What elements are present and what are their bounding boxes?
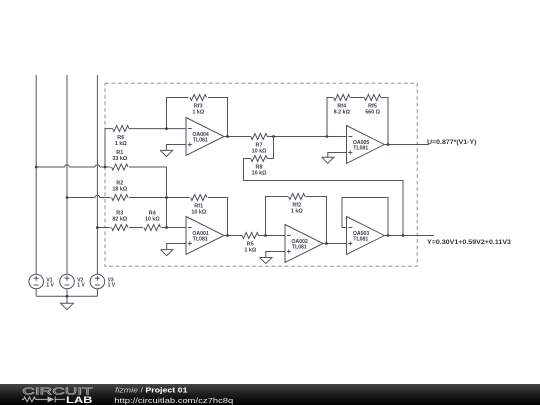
wire: V2 to R2 (hop over V3 bus) bbox=[67, 197, 111, 199]
wire hop over V3 bus on R2 line bbox=[95, 195, 100, 197]
svg-text:U=0.877*(V1-Y): U=0.877*(V1-Y) bbox=[427, 139, 477, 146]
wire: OA001 output to R5 bbox=[224, 235, 242, 237]
svg-text:1 kΩ: 1 kΩ bbox=[115, 141, 127, 147]
wire: OA003 unity feedback loop bbox=[342, 198, 388, 236]
svg-text:10 kΩ: 10 kΩ bbox=[252, 149, 267, 155]
dashed subcircuit boundary box bbox=[105, 83, 417, 266]
voltage source V3 1 V bbox=[90, 274, 105, 289]
wire: between Rf4 and Rf5 bbox=[351, 97, 365, 99]
svg-text:TL081: TL081 bbox=[353, 237, 368, 243]
wire: V1 bottom lead bbox=[35, 289, 37, 297]
svg-text:1 V: 1 V bbox=[77, 283, 85, 289]
svg-text:82 kΩ: 82 kΩ bbox=[112, 216, 127, 222]
ground: OA002 non-inverting input bbox=[260, 252, 285, 264]
svg-text:10 kΩ: 10 kΩ bbox=[145, 216, 160, 222]
wire: OA002 output to OA003 non-inverting input bbox=[323, 243, 347, 245]
op-amp OA003 TL081 bbox=[347, 217, 385, 255]
op-amp OA004 TL081 bbox=[186, 118, 224, 156]
resistor R7 10 kΩ bbox=[251, 134, 268, 140]
wire: R3 to R4 bbox=[129, 227, 143, 229]
wire: OA004 output to R7 bbox=[224, 136, 251, 138]
wire: V2 bottom lead bbox=[66, 289, 68, 297]
resistor Rf3 1 kΩ bbox=[190, 95, 207, 101]
wire: Rf1 right lead down to OA001 output bbox=[208, 198, 228, 236]
wire: OA005 feedback left vertical + lead to Rf4 bbox=[327, 98, 333, 137]
svg-text:fizmie / Project 01: fizmie / Project 01 bbox=[115, 386, 188, 395]
op-amp OA002 TL081 bbox=[285, 225, 323, 263]
ground: OA001 non-inverting input bbox=[161, 244, 187, 256]
ground: OA005 non-inverting input bbox=[322, 153, 347, 164]
svg-text:LAB: LAB bbox=[66, 394, 93, 405]
logo resistor-diode glyph bbox=[22, 396, 65, 402]
wire: OA003 output to Y terminal bbox=[385, 235, 435, 237]
wire: Rf5 right lead down to OA005 output bbox=[381, 98, 388, 145]
svg-text:1 kΩ: 1 kΩ bbox=[244, 248, 256, 254]
resistor R6 1 kΩ bbox=[113, 126, 130, 132]
wire: OA005 output to U terminal bbox=[385, 144, 430, 146]
wire: source common rail bbox=[36, 295, 97, 297]
svg-text:10 kΩ: 10 kΩ bbox=[252, 171, 267, 177]
wire: V1 to R1 (hops over V2,V3 buses) bbox=[36, 166, 110, 168]
wire: riser from R1 line up to R6 bbox=[105, 129, 113, 167]
wire hop over V2 bus bbox=[65, 165, 70, 167]
wire: R5 to OA002 inverting input bbox=[259, 235, 286, 237]
wire: V3 to R3 bbox=[97, 227, 110, 229]
resistor Rf1 10 kΩ bbox=[191, 195, 208, 201]
resistor R2 18 kΩ bbox=[112, 195, 129, 201]
svg-text:TL081: TL081 bbox=[353, 146, 368, 152]
svg-text:TL081: TL081 bbox=[193, 138, 208, 144]
op-amp OA001 TL081 bbox=[186, 217, 224, 255]
wire: V1 bus vertical bbox=[35, 75, 37, 274]
wire: Rf2 right lead down to OA002 output bbox=[306, 197, 327, 244]
wire: V2 bus vertical bbox=[66, 75, 68, 274]
wire: OA001 summing node vertical (R1,R2,R4,Rf1) bbox=[166, 167, 168, 228]
resistor R8 10 kΩ bbox=[251, 156, 268, 162]
wire: OA004 feedback left vertical + lead to Rf3 bbox=[167, 98, 189, 129]
svg-text:33 kΩ: 33 kΩ bbox=[112, 156, 127, 162]
voltage source V1 1 V bbox=[29, 274, 44, 289]
ground: source common bbox=[61, 296, 74, 309]
svg-text:1 V: 1 V bbox=[108, 283, 116, 289]
wire: V3 bottom lead bbox=[96, 289, 98, 297]
svg-text:TL081: TL081 bbox=[193, 237, 208, 243]
wire: R1 right lead to summing node bbox=[129, 166, 167, 168]
svg-text:Y=0.30V1+0.59V2+0.11V3: Y=0.30V1+0.59V2+0.11V3 bbox=[427, 239, 511, 246]
resistor R5 1 kΩ bbox=[242, 233, 259, 239]
wire: R8 left lead down and across to Y output node bbox=[244, 159, 404, 236]
svg-text:560 Ω: 560 Ω bbox=[365, 110, 380, 116]
wire hop over V3 bus bbox=[95, 165, 100, 167]
op-amp OA005 TL081 bbox=[347, 126, 385, 164]
svg-text:1 kΩ: 1 kΩ bbox=[192, 110, 204, 116]
resistor Rf2 1 kΩ bbox=[289, 194, 306, 200]
wire: Rf3 right lead down to OA004 output bbox=[208, 98, 228, 137]
wire: V3 bus vertical bbox=[96, 75, 98, 274]
wire: R7 to OA005 inverting input bbox=[267, 136, 346, 138]
wire: R2 right lead to summing node bbox=[129, 197, 167, 199]
wire: R6 to OA004 inverting input bbox=[129, 128, 186, 130]
svg-text:1 V: 1 V bbox=[46, 283, 54, 289]
voltage source V2 1 V bbox=[60, 274, 75, 289]
wire: R8 right lead up to OA005 input node bbox=[267, 137, 273, 159]
resistor Rf4 8.2 kΩ bbox=[334, 95, 351, 101]
wire: summing node lead to Rf1 bbox=[167, 197, 190, 199]
svg-text:http://circuitlab.com/cz7hc8q: http://circuitlab.com/cz7hc8q bbox=[114, 396, 233, 405]
wire: R4 to OA001 inverting input bbox=[162, 227, 187, 229]
svg-text:1 kΩ: 1 kΩ bbox=[291, 209, 303, 215]
svg-text:8.2 kΩ: 8.2 kΩ bbox=[334, 110, 351, 116]
footer brand bar background bbox=[0, 384, 540, 405]
resistor R3 82 kΩ bbox=[112, 225, 129, 231]
resistor Rf5 560 Ω bbox=[364, 95, 381, 101]
ground: OA004 non-inverting input bbox=[160, 145, 186, 157]
svg-text:TL081: TL081 bbox=[292, 245, 307, 251]
resistor R4 10 kΩ bbox=[144, 225, 161, 231]
resistor R1 33 kΩ bbox=[112, 164, 129, 170]
svg-text:10 kΩ: 10 kΩ bbox=[191, 210, 206, 216]
svg-text:18 kΩ: 18 kΩ bbox=[112, 186, 127, 192]
wire: Rf2 left vertical from OA002 input node bbox=[266, 197, 289, 236]
